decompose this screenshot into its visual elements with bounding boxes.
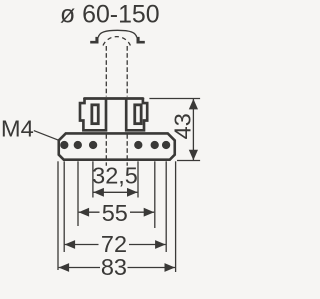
dim 43 bottom extension line bbox=[177, 160, 200, 162]
dim 72 arrow left bbox=[65, 240, 76, 249]
dim 83 dimension line bbox=[59, 267, 175, 269]
dim 83 arrow left bbox=[59, 263, 70, 272]
dim 32,5 arrow left bbox=[93, 188, 104, 197]
dim 83 left extension line bbox=[57, 161, 59, 270]
dim 72 arrow right bbox=[155, 240, 166, 249]
dim 43 dimension line bbox=[192, 99, 194, 160]
dim 32,5 dimension line bbox=[94, 191, 138, 193]
dim 32,5 left extension line bbox=[92, 161, 94, 197]
dim 55 left extension line bbox=[77, 161, 79, 226]
dim 32,5 right extension line bbox=[137, 161, 139, 197]
base plate bbox=[59, 133, 175, 159]
dim 55 dimension line bbox=[79, 211, 155, 213]
dim 43 top extension line bbox=[149, 98, 200, 100]
svg-text:55: 55 bbox=[102, 200, 128, 226]
clamp strap inner arc (hidden, dashed) bbox=[103, 37, 130, 46]
clamp strap left hook foot bbox=[90, 37, 98, 44]
dim 83 arrow right bbox=[165, 263, 176, 272]
svg-text:32,5: 32,5 bbox=[92, 162, 138, 188]
dim 83 right extension line bbox=[175, 161, 177, 272]
dim 55 arrow left bbox=[79, 208, 90, 217]
rail profile left channel outline bbox=[80, 98, 106, 131]
hole 6 bbox=[162, 141, 170, 149]
svg-text:43: 43 bbox=[170, 113, 196, 139]
clamp strap outer arc bbox=[98, 30, 136, 37]
left channel slot bbox=[92, 105, 98, 124]
hidden slot edge dashed line right (upper) bbox=[126, 46, 128, 97]
dim 83 text mask bbox=[100, 257, 128, 277]
dim 43 arrow down bbox=[189, 150, 198, 161]
hole 2 bbox=[74, 141, 82, 149]
svg-text:72: 72 bbox=[101, 231, 127, 257]
dim 72 dimension line bbox=[65, 244, 166, 246]
svg-text:ø 60-150: ø 60-150 bbox=[60, 1, 160, 29]
dim 32,5 arrow right bbox=[127, 188, 138, 197]
hole 4 bbox=[134, 141, 142, 149]
dim 55 right extension line bbox=[154, 161, 156, 228]
M4 leader line bbox=[34, 131, 58, 141]
right channel slot bbox=[135, 105, 141, 124]
rail profile top bar bbox=[85, 97, 143, 100]
hidden slot edge dashed line right (lower, through base) bbox=[126, 134, 128, 166]
rail profile right channel outline bbox=[126, 98, 147, 131]
dim 72 right extension line bbox=[165, 161, 167, 252]
hidden slot edge dashed line left (upper) bbox=[105, 46, 107, 97]
svg-text:M4: M4 bbox=[1, 116, 34, 142]
dim 72 text mask bbox=[99, 235, 130, 255]
svg-text:83: 83 bbox=[101, 254, 127, 280]
dim 72 left extension line bbox=[63, 161, 65, 252]
hidden slot edge dashed line left (lower, through base) bbox=[105, 134, 107, 166]
hole 1 bbox=[60, 141, 68, 149]
dim 55 arrow right bbox=[144, 208, 155, 217]
hole 5 bbox=[151, 141, 159, 149]
hole 3 bbox=[89, 141, 97, 149]
dim 43 arrow up bbox=[189, 99, 198, 110]
dim 55 text mask bbox=[100, 203, 131, 223]
clamp strap right hook foot bbox=[137, 37, 145, 44]
